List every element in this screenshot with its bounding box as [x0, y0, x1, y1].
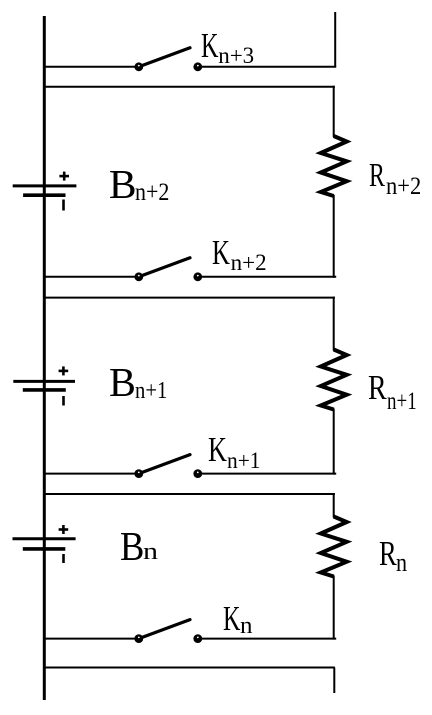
wire: switch line Kn left segment [43, 638, 139, 640]
label K n+1 [208, 433, 227, 468]
label B n+1 subscript [135, 379, 167, 403]
wire: rail 2 [43, 297, 335, 299]
wire: left vertical bus [43, 16, 46, 700]
wire: bottom-right vertical stub [333, 668, 335, 694]
label K n [223, 602, 240, 637]
battery B n minus polarity tick [62, 554, 65, 563]
wire: switch line Kn+1 left segment [43, 473, 139, 475]
label R n [379, 537, 397, 572]
label R n+2 [369, 159, 385, 193]
label K n+2 [212, 236, 230, 271]
label R n subscript [396, 550, 407, 576]
switch Kn+3 [134, 48, 202, 71]
wire: rail 1 [43, 86, 335, 88]
label K n+2 subscript [231, 251, 267, 274]
resistor Rn [321, 517, 347, 577]
label R n+1 subscript [387, 389, 417, 414]
wire: switch line Kn+2 left segment [43, 276, 139, 278]
battery B n+1 plus polarity mark [59, 366, 69, 375]
wire: switch line Kn+3 left segment [43, 66, 139, 68]
wire: resistor Rn bottom lead [333, 576, 335, 640]
switch Kn+1 [134, 455, 202, 478]
label R n+2 subscript [386, 174, 421, 199]
switch Kn+2 [134, 258, 202, 281]
label K n+3 subscript [218, 44, 254, 67]
wire: switch line Kn right segment [198, 638, 336, 640]
wire: switch line Kn+2 right segment [198, 276, 336, 278]
resistor Rn+2 [321, 136, 347, 196]
label B n+2 [109, 164, 137, 206]
battery B n plus polarity mark [59, 525, 69, 534]
label B n [120, 526, 144, 568]
battery B n+1 minus polarity tick [62, 396, 65, 406]
label B n+1 [109, 362, 136, 404]
wire: resistor Rn+1 top lead [333, 297, 335, 351]
wire: resistor Rn top lead [333, 493, 335, 518]
battery B n+2 plus polarity mark [59, 172, 69, 181]
resistor Rn+1 [321, 350, 347, 410]
label K n+1 subscript [227, 449, 260, 472]
wire: resistor Rn+1 bottom lead [333, 409, 335, 475]
label K n subscript [240, 614, 252, 638]
wire: rail 3 [43, 493, 335, 495]
label B n subscript [143, 540, 158, 564]
label B n+2 subscript [135, 180, 169, 205]
label R n+1 [368, 371, 387, 406]
battery B n plates [13, 539, 76, 549]
wire: resistor Rn+2 top lead [333, 86, 335, 137]
wire: resistor Rn+2 bottom lead [333, 195, 335, 278]
wire: switch line Kn+1 right segment [198, 473, 336, 475]
battery B n+2 plates [13, 186, 77, 195]
wire: top-right vertical stub [334, 12, 336, 67]
switch Kn [134, 620, 202, 643]
label K n+3 [201, 29, 218, 64]
wire: rail 4 [43, 667, 335, 669]
battery B n+1 plates [13, 381, 75, 390]
battery B n+2 minus polarity tick [62, 200, 65, 211]
wire: switch line Kn+3 right segment [198, 66, 336, 68]
